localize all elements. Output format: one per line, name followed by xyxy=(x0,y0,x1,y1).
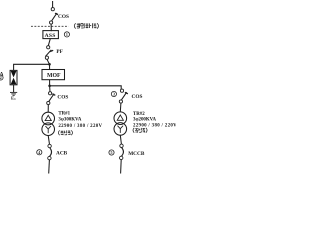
label (responsibility demarcation point), hangul xyxy=(74,23,98,28)
svg-text:ACB: ACB xyxy=(56,151,68,157)
wire: TR#2 secondary to MCCB xyxy=(120,135,121,144)
numbered node 4 (circled) xyxy=(37,150,42,155)
wire: bus junction to TR#1 COS xyxy=(49,86,51,92)
svg-text:MOF: MOF xyxy=(47,73,61,79)
breaker MCCB contact arc xyxy=(122,148,124,157)
wire: branch to lightning arrester xyxy=(14,64,50,70)
breaker ACB contact arc xyxy=(50,148,52,157)
power fuse PF lower terminal xyxy=(45,56,48,59)
svg-text:TR#2: TR#2 xyxy=(133,112,145,117)
svg-text:3: 3 xyxy=(113,92,115,97)
cutout switch COS (TR#1) lower terminal xyxy=(47,101,50,104)
wire: MCCB to load (bottom) xyxy=(120,160,123,174)
cutout switch COS (incoming) upper terminal xyxy=(51,8,54,11)
junction node (bus tee) xyxy=(48,85,51,88)
svg-text:TR#1: TR#1 xyxy=(58,111,70,116)
svg-text:COS: COS xyxy=(57,95,68,101)
svg-text:22900 / 380 / 220V: 22900 / 380 / 220V xyxy=(133,123,176,128)
svg-text:COS: COS xyxy=(58,14,69,20)
value label (power use) TR#2, hangul xyxy=(133,128,147,133)
svg-text:3φ300KVA: 3φ300KVA xyxy=(58,118,82,123)
power fuse PF upper terminal xyxy=(47,46,50,49)
numbered node 2 (circled, clipped at left edge) xyxy=(0,75,3,80)
svg-text:MCCB: MCCB xyxy=(128,151,145,157)
svg-text:2: 2 xyxy=(0,75,2,80)
wire: LA to ground xyxy=(13,85,15,92)
svg-text:5: 5 xyxy=(111,150,113,155)
wire: TR#1 secondary to ACB xyxy=(48,136,49,145)
wire: incoming feeder stub (top) xyxy=(52,1,54,8)
numbered node 1 (circled) xyxy=(64,32,69,37)
wire: COS to TR#2 primary xyxy=(119,103,122,112)
cutout switch COS (incoming) lower terminal xyxy=(50,21,53,24)
numbered node 5 (circled) xyxy=(109,150,114,155)
metering outfit MOF (box) xyxy=(42,70,65,80)
wire: PF to LA tee junction xyxy=(47,59,49,64)
wire: distribution bus to TR#2 branch xyxy=(50,86,122,89)
breaker ACB upper terminal xyxy=(48,144,51,147)
wire: ASS to PF xyxy=(48,39,50,46)
cutout switch COS (TR#2) upper terminal xyxy=(120,89,123,92)
wire: junction to MOF xyxy=(49,64,51,69)
svg-text:E1: E1 xyxy=(11,95,16,101)
transformer TR#2 (delta-wye) xyxy=(114,112,127,135)
breaker ACB lower terminal xyxy=(48,156,51,159)
demarcation dashed line xyxy=(31,25,69,27)
wire: MOF to LV bus junction xyxy=(49,80,51,86)
ground symbol E1 xyxy=(10,92,17,95)
transformer TR#1 (delta-wye) xyxy=(42,112,55,135)
breaker MCCB upper terminal xyxy=(120,144,123,147)
svg-text:1: 1 xyxy=(66,32,68,37)
automatic section switch ASS (box) xyxy=(43,31,59,39)
wire: COS to TR#1 primary xyxy=(47,105,49,113)
cutout switch COS (incoming) blade with fuse tick xyxy=(52,13,59,21)
cutout switch COS (TR#2) lower terminal xyxy=(119,100,122,103)
cutout switch COS (TR#1) blade with fuse tick xyxy=(49,94,56,102)
svg-text:3φ200KVA: 3φ200KVA xyxy=(133,118,157,123)
cutout switch COS (TR#1) upper terminal xyxy=(49,92,52,95)
lightning arrester LA (box with arrow) xyxy=(10,70,17,84)
junction node (LA tee) xyxy=(48,63,51,66)
svg-text:PF: PF xyxy=(56,49,62,55)
cutout switch COS (TR#2) blade with fuse tick xyxy=(121,92,128,100)
power fuse PF blade with fuse tick xyxy=(46,50,54,56)
wire: COS to ASS crossing demarcation line xyxy=(50,24,52,31)
svg-text:22900 / 380 / 220V: 22900 / 380 / 220V xyxy=(58,124,102,129)
svg-text:4: 4 xyxy=(38,150,40,155)
value label (power use), hangul xyxy=(58,130,72,135)
breaker MCCB lower terminal xyxy=(120,156,123,159)
wire: ACB to load (bottom) xyxy=(48,160,51,174)
numbered node 3 (circled) xyxy=(111,91,116,96)
svg-text:ASS: ASS xyxy=(45,33,56,39)
svg-text:COS: COS xyxy=(132,94,143,100)
